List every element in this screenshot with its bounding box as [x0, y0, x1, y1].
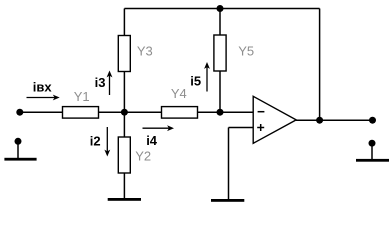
- svg-text:Y4: Y4: [171, 86, 187, 101]
- ground: op-amp non-inverting input: [211, 199, 244, 202]
- wire: top rail down to Y3 top: [123, 9, 125, 37]
- arrow: i4: [143, 125, 175, 131]
- svg-text:i3: i3: [95, 75, 106, 90]
- node: top feedback junction: [217, 5, 224, 12]
- resistor Y1: [63, 107, 99, 119]
- wire: Y2 bottom to ground: [123, 173, 125, 199]
- resistor Y4: [162, 107, 198, 119]
- resistor Y3: [118, 36, 130, 72]
- node B junction: [217, 109, 224, 116]
- svg-text:iвх: iвх: [33, 80, 53, 95]
- wire: Y5 bottom to node 2: [219, 71, 221, 113]
- wire: top junction down to Y5 top: [219, 9, 221, 36]
- wire: non-inverting input down to ground: [228, 128, 230, 200]
- wire: Y4 right to op-amp inverting input through node 2: [197, 111, 254, 113]
- arrow: i5: [204, 62, 210, 92]
- node A junction: [121, 109, 128, 116]
- svg-text:i5: i5: [190, 74, 201, 89]
- svg-text:Y2: Y2: [135, 148, 151, 163]
- node: output ground terminal: [369, 140, 376, 147]
- svg-text:i4: i4: [146, 133, 158, 148]
- wire: Y1 right to Y4 left through node 1: [98, 111, 162, 113]
- wire: input ground terminal stub: [17, 143, 19, 159]
- node: input ground terminal: [15, 138, 22, 145]
- ground: below Y2: [108, 198, 141, 201]
- op-amp U1: [253, 96, 296, 143]
- svg-text:i2: i2: [90, 134, 101, 149]
- svg-text:Y5: Y5: [238, 43, 254, 58]
- svg-text:Y1: Y1: [74, 89, 90, 104]
- wire: node 1 down to Y2 top: [123, 112, 125, 137]
- wire: top feedback rail: [124, 8, 319, 10]
- wire: non-inverting input horizontal: [229, 127, 255, 129]
- wire: output ground terminal stub: [371, 145, 373, 160]
- wire: op-amp output to output terminal: [296, 119, 373, 121]
- wire: Y3 bottom to node 1: [123, 72, 125, 113]
- arrow: i3: [107, 71, 113, 96]
- wire: input terminal to Y1 left: [20, 111, 64, 113]
- arrow: iвх: [27, 95, 60, 101]
- ground: input port: [4, 158, 36, 161]
- node: input terminal: [16, 109, 23, 116]
- node: output junction: [316, 117, 323, 124]
- wire: right feedback drop to output node: [319, 9, 321, 121]
- svg-text:Y3: Y3: [137, 43, 153, 58]
- arrow: i2: [104, 127, 110, 157]
- resistor Y5: [214, 35, 226, 71]
- ground: output port: [356, 159, 389, 162]
- node: output terminal: [369, 117, 376, 124]
- resistor Y2: [118, 137, 130, 173]
